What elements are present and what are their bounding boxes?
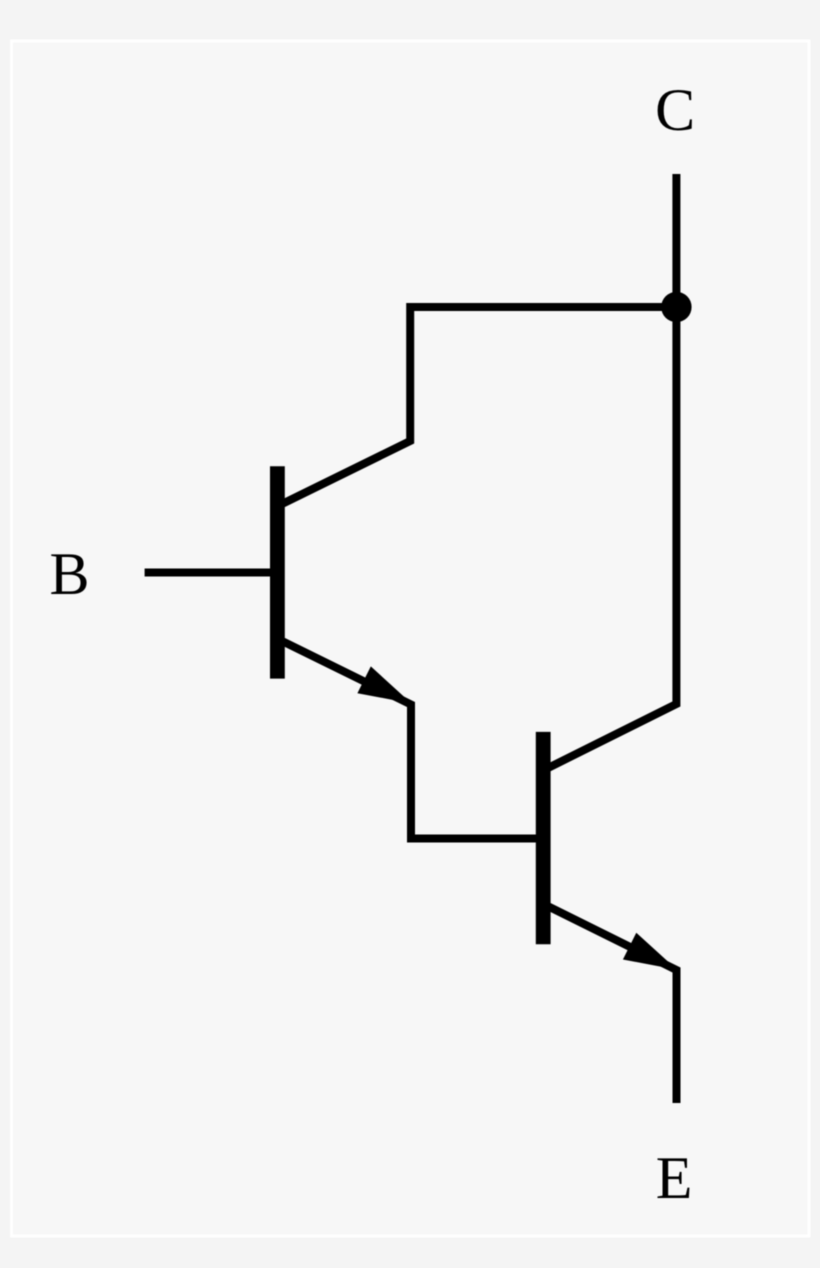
svg-text:E: E [656, 1145, 693, 1211]
svg-text:C: C [655, 77, 695, 143]
svg-text:B: B [49, 541, 89, 607]
